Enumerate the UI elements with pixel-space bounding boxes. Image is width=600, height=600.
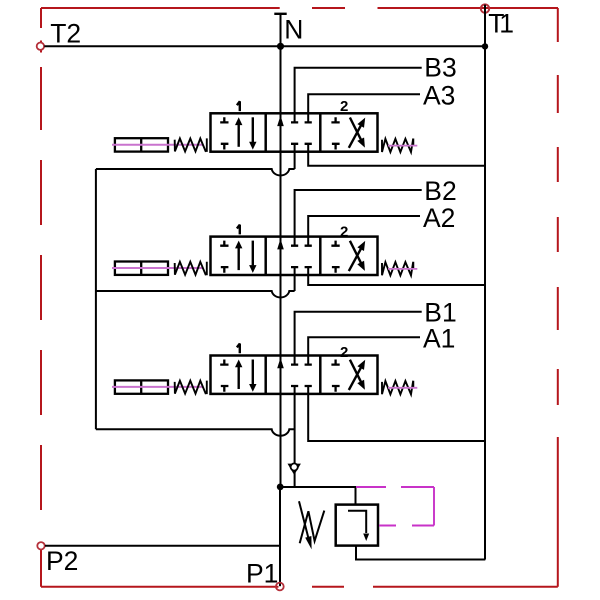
check valve on P carryover bbox=[288, 464, 301, 475]
valve V2 position 1 up arrow bbox=[237, 247, 239, 271]
wire port B2 line bbox=[295, 190, 422, 246]
svg-text:B2: B2 bbox=[424, 176, 456, 206]
valve V3 position 1 down arrow bbox=[252, 117, 254, 142]
valve V2 lever shaft (violet) bbox=[112, 267, 203, 269]
valve V1 position 2 blocked port symbols bbox=[331, 360, 339, 392]
wire port A3 line bbox=[308, 94, 420, 122]
wire parallel rail to valve 1 (bridge over P line) bbox=[96, 429, 295, 435]
wire port A2 line bbox=[308, 216, 420, 246]
valve V1 hand lever actuator boxes bbox=[115, 380, 168, 393]
wire valve 1 left return stub down to check valve bbox=[294, 386, 296, 487]
valve V3 position 1 up arrow bbox=[237, 123, 239, 147]
svg-text:T2: T2 bbox=[50, 18, 81, 48]
valve V1 left return spring bbox=[175, 381, 207, 395]
valve V2 left return spring bbox=[175, 262, 207, 276]
wire T1 vertical (tank return line) bbox=[484, 5, 486, 560]
valve V3 hand lever actuator boxes bbox=[115, 138, 168, 151]
relief valve RV adjustment arrow bbox=[299, 501, 310, 543]
label position 1 of valve V3 bbox=[237, 101, 240, 111]
valve V2 neutral bypass arrow bbox=[277, 239, 284, 250]
valve V3 right spring axis line (violet) bbox=[388, 145, 417, 147]
relief valve RV adjustable spring bbox=[300, 511, 325, 544]
svg-text:2: 2 bbox=[340, 98, 348, 115]
wire N vertical (P feed line) bbox=[280, 14, 282, 487]
valve V1 position 1 blocked port symbols bbox=[220, 360, 228, 392]
svg-text:B3: B3 bbox=[424, 53, 456, 83]
valve V1 neutral bypass arrow bbox=[277, 358, 284, 369]
valve V1 neutral blocked port bars bbox=[291, 365, 312, 386]
svg-text:P1: P1 bbox=[246, 558, 278, 588]
wire valve 3 left return stub bbox=[294, 144, 296, 169]
wire port B3 line bbox=[295, 68, 422, 123]
valve V1 position 1 up arrow bbox=[237, 366, 239, 390]
valve V2 position 2 blocked port symbols bbox=[331, 241, 339, 273]
valve V3 neutral bypass arrow bbox=[277, 116, 284, 127]
port P1 terminal circle bbox=[276, 583, 284, 591]
valve V2 hand lever actuator boxes bbox=[115, 262, 168, 275]
svg-text:2: 2 bbox=[340, 224, 348, 241]
relief valve RV body bbox=[336, 505, 378, 546]
wire T2-N-T1 horizontal bbox=[44, 45, 485, 47]
wire relief valve outlet to T1 line bbox=[356, 546, 485, 560]
wire parallel rail to valve 3 (bridge over P line) bbox=[96, 169, 295, 175]
valve V2 right return spring bbox=[382, 262, 413, 276]
svg-text:A2: A2 bbox=[423, 203, 455, 233]
valve V3 lever shaft (violet) bbox=[112, 144, 203, 146]
port P2 terminal circle bbox=[37, 542, 44, 549]
svg-text:N: N bbox=[284, 14, 303, 44]
valve V3 right return spring bbox=[382, 139, 413, 153]
junction dot N x T2 line bbox=[277, 43, 284, 50]
svg-text:2: 2 bbox=[340, 344, 348, 361]
valve V2 right spring axis line (violet) bbox=[388, 268, 417, 270]
port T1 terminal circle bbox=[481, 4, 489, 12]
relief valve RV internal flow path arrow bbox=[348, 511, 366, 533]
valve V2 position 2 cross arrow up-right bbox=[349, 249, 361, 271]
valve V3 position 1 blocked port symbols bbox=[220, 117, 228, 149]
valve V3 body (3-position 6-way spool) bbox=[211, 113, 378, 151]
wire left parallel rail vertical bbox=[95, 169, 97, 429]
svg-text:P2: P2 bbox=[46, 546, 78, 576]
port N cap bbox=[274, 13, 286, 15]
valve V2 position 1 blocked port symbols bbox=[220, 241, 228, 273]
junction dot P line bbox=[277, 484, 284, 491]
valve V3 position 2 cross arrow down-right bbox=[350, 118, 361, 140]
svg-text:A1: A1 bbox=[423, 323, 455, 353]
label position 1 of valve V1 bbox=[237, 344, 240, 354]
valve V2 body (3-position 6-way spool) bbox=[211, 237, 378, 275]
wire P junction to relief valve inlet bbox=[280, 487, 356, 505]
junction dot T1 x T2 line bbox=[482, 43, 488, 49]
wire P2 horizontal bbox=[45, 545, 280, 547]
valve V3 neutral blocked port bars bbox=[291, 122, 312, 143]
valve V1 right return spring bbox=[382, 381, 413, 395]
wire valve 3 right return to T1 bbox=[308, 144, 485, 166]
valve V2 position 2 cross arrow down-right bbox=[350, 241, 361, 263]
svg-text:A3: A3 bbox=[423, 81, 455, 111]
label position 1 of valve V2 bbox=[237, 225, 240, 235]
wire port B1 line bbox=[295, 312, 422, 365]
wire valve 2 left return stub bbox=[294, 267, 296, 291]
valve V1 position 2 cross arrow up-right bbox=[349, 368, 361, 390]
valve V1 lever shaft (violet) bbox=[112, 386, 203, 388]
wire parallel rail to valve 2 (bridge over P line) bbox=[96, 291, 295, 297]
valve V2 neutral blocked port bars bbox=[291, 246, 312, 267]
valve V3 left return spring bbox=[175, 138, 207, 152]
valve V1 position 2 cross arrow down-right bbox=[350, 360, 361, 382]
wire port A1 line bbox=[308, 337, 420, 364]
port T2 terminal circle bbox=[37, 43, 44, 50]
valve V1 body (3-position 6-way spool) bbox=[211, 356, 378, 394]
valve V1 right spring axis line (violet) bbox=[388, 387, 417, 389]
wire valve 2 right return to T1 bbox=[308, 267, 485, 285]
valve V1 position 1 down arrow bbox=[252, 360, 254, 385]
valve V3 position 2 cross arrow up-right bbox=[349, 126, 361, 148]
valve V2 position 1 down arrow bbox=[252, 241, 254, 266]
wire valve 1 right return to T1 bbox=[308, 386, 485, 441]
wire P1 vertical bbox=[279, 487, 281, 586]
svg-text:T1: T1 bbox=[488, 8, 514, 38]
relief valve RV pilot line (magenta dashed) bbox=[356, 486, 434, 488]
valve V3 position 2 blocked port symbols bbox=[331, 117, 339, 149]
